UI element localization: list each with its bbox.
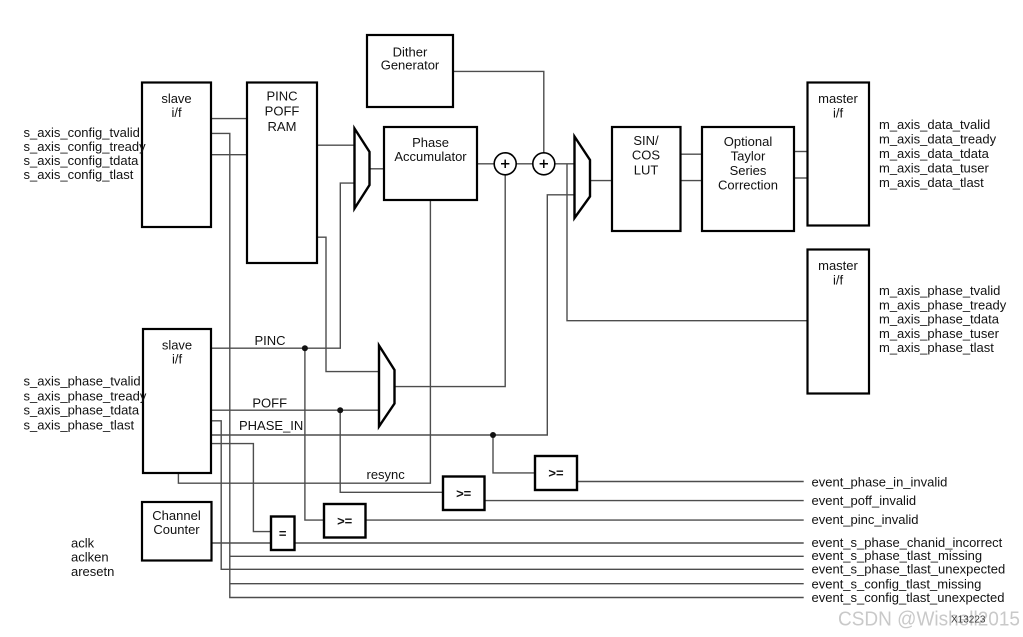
mux M3 xyxy=(379,346,395,427)
svg-text:>=: >= xyxy=(456,486,472,501)
Phase Accumulator box xyxy=(384,127,477,200)
svg-text:slave: slave xyxy=(162,338,192,353)
PINC POFF RAM box xyxy=(247,83,317,264)
svg-text:Channel: Channel xyxy=(152,508,201,523)
svg-text:m_axis_phase_tdata: m_axis_phase_tdata xyxy=(879,312,1000,327)
master i/f phase box xyxy=(808,250,870,394)
svg-text:event_poff_invalid: event_poff_invalid xyxy=(812,493,917,508)
svg-text:PHASE_IN: PHASE_IN xyxy=(239,418,303,433)
junction dot PINC xyxy=(302,345,308,351)
svg-text:aresetn: aresetn xyxy=(71,564,114,579)
wire PINC RAM to mux M1 input 1 xyxy=(317,144,355,146)
svg-text:m_axis_phase_tuser: m_axis_phase_tuser xyxy=(879,326,1000,341)
svg-text:s_axis_config_tdata: s_axis_config_tdata xyxy=(24,153,140,168)
svg-text:COS: COS xyxy=(632,148,661,163)
svg-text:event_s_phase_tlast_unexpected: event_s_phase_tlast_unexpected xyxy=(812,562,1006,577)
svg-text:Series: Series xyxy=(730,163,767,178)
comparator box GE2 xyxy=(443,477,485,511)
wire event_s_config_tlast_missing tee xyxy=(230,583,804,585)
svg-text:resync: resync xyxy=(367,467,406,482)
svg-text:event_s_config_tlast_unexpecte: event_s_config_tlast_unexpected xyxy=(812,590,1005,605)
svg-text:master: master xyxy=(818,258,858,273)
svg-text:Optional: Optional xyxy=(724,134,773,149)
wire mux M3 output to adder A1 xyxy=(395,175,506,387)
wire adder A2 to demux M2 xyxy=(555,163,575,165)
wire slave-config to PINC RAM (lower) xyxy=(211,154,247,156)
Dither Generator box xyxy=(367,35,453,107)
svg-text:slave: slave xyxy=(161,91,191,106)
junction dot PHASE_IN xyxy=(490,432,496,438)
svg-text:s_axis_phase_tvalid: s_axis_phase_tvalid xyxy=(24,374,141,389)
svg-text:m_axis_phase_tlast: m_axis_phase_tlast xyxy=(879,340,994,355)
svg-text:X13223: X13223 xyxy=(951,615,986,626)
wire PINC branch down to comparator GE1 xyxy=(305,348,324,520)
svg-text:m_axis_data_tdata: m_axis_data_tdata xyxy=(879,146,990,161)
svg-text:s_axis_phase_tdata: s_axis_phase_tdata xyxy=(24,403,140,418)
wire slave-phase tap to event_s_phase_tlast_unexpected xyxy=(211,421,804,570)
Channel Counter box xyxy=(142,502,212,561)
comparator box GE1 xyxy=(324,504,366,538)
svg-text:PINC: PINC xyxy=(266,89,297,104)
wire demux M2 to SIN/COS LUT xyxy=(590,180,612,182)
wire SIN/COS LUT to Taylor (lower) xyxy=(681,180,703,182)
wire resync feedback Phase Accumulator to slave-phase xyxy=(178,200,430,483)
Optional Taylor Series Correction box xyxy=(702,127,794,231)
svg-text:m_axis_phase_tvalid: m_axis_phase_tvalid xyxy=(879,283,1000,298)
svg-text:POFF: POFF xyxy=(265,104,300,119)
svg-text:LUT: LUT xyxy=(634,162,659,177)
svg-text:=: = xyxy=(279,526,287,541)
svg-text:i/f: i/f xyxy=(833,105,844,120)
mux M1 xyxy=(355,129,370,209)
wire PINC from slave-phase to mux M1 input 2 xyxy=(211,183,355,348)
wire phase tap to master-phase i/f xyxy=(567,164,808,321)
wire POFF branch down to comparator GE2 xyxy=(340,410,443,492)
wire PINC RAM bottom tap to mux M3 input 1 xyxy=(317,237,379,371)
svg-text:m_axis_phase_tready: m_axis_phase_tready xyxy=(879,297,1007,312)
svg-text:m_axis_data_tuser: m_axis_data_tuser xyxy=(879,161,990,176)
svg-text:m_axis_data_tlast: m_axis_data_tlast xyxy=(879,175,984,190)
svg-text:s_axis_phase_tready: s_axis_phase_tready xyxy=(24,389,147,404)
svg-text:aclk: aclk xyxy=(71,535,95,550)
wire slave-config tap to long vertical x230 xyxy=(211,133,804,597)
svg-text:>=: >= xyxy=(548,466,564,481)
equality box EQ xyxy=(271,517,295,551)
svg-text:POFF: POFF xyxy=(252,395,287,410)
svg-text:m_axis_data_tready: m_axis_data_tready xyxy=(879,132,997,147)
wire POFF from slave-phase to mux M3 input 2 xyxy=(211,409,379,411)
comparator box GE3 xyxy=(535,456,577,490)
svg-text:Correction: Correction xyxy=(718,178,778,193)
wire PHASE_IN from slave-phase to demux M2 xyxy=(211,195,575,435)
wire comparator GE2 output event_poff_invalid xyxy=(485,500,804,502)
SIN/COS LUT box xyxy=(612,127,681,231)
svg-text:aclken: aclken xyxy=(71,550,109,565)
svg-text:Phase: Phase xyxy=(412,135,449,150)
svg-text:i/f: i/f xyxy=(172,352,183,367)
adder A2 circle xyxy=(533,153,555,175)
svg-text:Counter: Counter xyxy=(153,522,200,537)
svg-text:i/f: i/f xyxy=(171,105,182,120)
svg-text:event_phase_in_invalid: event_phase_in_invalid xyxy=(812,474,948,489)
svg-text:event_pinc_invalid: event_pinc_invalid xyxy=(812,512,919,527)
slave i/f phase box xyxy=(143,329,211,473)
wire Taylor to master-data i/f (upper) xyxy=(794,151,808,153)
svg-text:RAM: RAM xyxy=(268,119,297,134)
wire adder A1 to adder A2 xyxy=(516,163,532,165)
wire PHASE_IN branch down to comparator GE3 xyxy=(493,435,535,473)
wire SIN/COS LUT to Taylor (upper) xyxy=(681,153,703,155)
adder A1 circle xyxy=(494,153,516,175)
svg-text:Accumulator: Accumulator xyxy=(394,149,467,164)
svg-text:s_axis_config_tvalid: s_axis_config_tvalid xyxy=(24,125,140,140)
svg-text:m_axis_data_tvalid: m_axis_data_tvalid xyxy=(879,117,990,132)
svg-text:SIN/: SIN/ xyxy=(633,133,659,148)
svg-text:s_axis_config_tlast: s_axis_config_tlast xyxy=(24,167,134,182)
svg-text:Taylor: Taylor xyxy=(731,149,766,164)
wire comparator GE3 output event_phase_in_invalid xyxy=(577,481,804,483)
svg-text:PINC: PINC xyxy=(255,333,286,348)
junction dot POFF xyxy=(337,407,343,413)
wire comparator GE1 output event_pinc_invalid xyxy=(366,519,804,521)
wire Phase Accumulator to adder A1 xyxy=(477,163,494,165)
demux M2 xyxy=(575,137,591,219)
slave i/f config box xyxy=(142,83,211,228)
adder A2 plus xyxy=(540,160,548,168)
wire mux M1 output to Phase Accumulator xyxy=(370,168,385,170)
wire Taylor to master-data i/f (lower) xyxy=(794,177,808,179)
svg-text:s_axis_phase_tlast: s_axis_phase_tlast xyxy=(24,418,135,433)
wire event_s_phase_tlast_missing tee xyxy=(230,555,804,557)
wire Dither Generator to adder A2 xyxy=(453,71,544,152)
wire Channel Counter output / event_s_phase_chanid_incorrect xyxy=(212,542,804,544)
svg-text:Generator: Generator xyxy=(381,57,440,72)
svg-text:master: master xyxy=(818,91,858,106)
svg-text:CSDN @Wishell2015: CSDN @Wishell2015 xyxy=(838,608,1020,631)
wire slave-config to PINC RAM (upper) xyxy=(211,118,247,120)
adder A1 plus xyxy=(501,160,509,168)
wire slave-phase chanid to equality box EQ xyxy=(211,444,271,532)
master i/f data box xyxy=(808,83,870,226)
svg-text:>=: >= xyxy=(337,514,353,529)
svg-text:i/f: i/f xyxy=(833,272,844,287)
